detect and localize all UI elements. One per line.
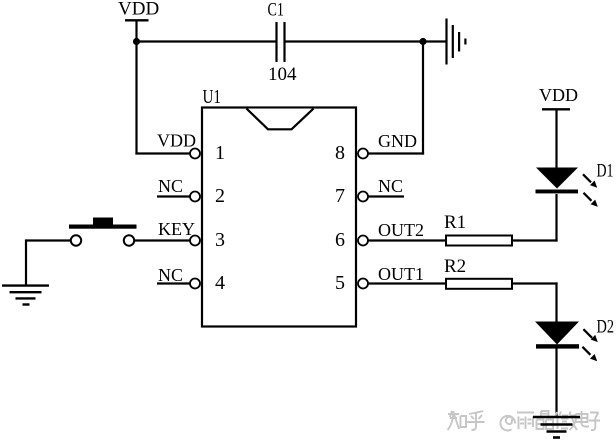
svg-text:D2: D2 (597, 317, 615, 338)
@ (500, 416, 515, 431)
IC notch (247, 109, 314, 130)
LED D2 (535, 322, 579, 349)
晶 (537, 411, 554, 429)
LED D1 (536, 168, 579, 194)
svg-text:OUT1: OUT1 (378, 264, 424, 284)
wire D2 cathode down to ground (555, 349, 557, 417)
电 (576, 411, 590, 427)
svg-text:8: 8 (335, 142, 345, 164)
子 (589, 413, 600, 431)
svg-text:C1: C1 (268, 0, 285, 21)
pin 8 circle (358, 149, 368, 159)
svg-text:7: 7 (335, 185, 345, 207)
svg-text:NC: NC (158, 265, 183, 285)
知 (448, 411, 467, 430)
pin 6 circle (358, 236, 368, 246)
wire button left to ground rail (26, 239, 71, 241)
wire D1 cathode down to R1 elbow (555, 194, 557, 242)
resistor R2 (444, 256, 512, 289)
node junction at VDD rail (133, 38, 140, 45)
svg-text:VDD: VDD (539, 85, 578, 105)
wire elbow down to D2 (555, 282, 557, 322)
pin 2 circle (190, 192, 200, 202)
wire VDD rail to pin 1 (135, 152, 190, 154)
wire GND node down to pin 8 (422, 42, 424, 155)
svg-text:R2: R2 (444, 256, 466, 277)
wire R1 to D1 elbow (513, 239, 558, 241)
svg-text:3: 3 (215, 229, 225, 251)
svg-text:U1: U1 (203, 86, 222, 108)
wire pin 5 to R2 (368, 282, 445, 284)
node junction at GND net (419, 38, 426, 45)
wire VDD rail down to pin 1 (135, 42, 137, 155)
power symbol VDD (top left) (118, 0, 159, 42)
op IC body U1 (202, 86, 356, 327)
watermark 知乎 @丽晶微电子 (drawn strokes, no CJK font) (448, 411, 601, 430)
capacitor C1 (268, 0, 298, 85)
svg-text:OUT2: OUT2 (378, 220, 424, 240)
svg-text:KEY: KEY (158, 219, 195, 239)
svg-text:D1: D1 (597, 161, 614, 182)
pin 7 stub wire (368, 195, 404, 197)
svg-text:1: 1 (215, 142, 225, 164)
svg-text:NC: NC (158, 176, 183, 196)
wire C1 right plate to ground node (286, 40, 424, 42)
resistor R1 (444, 212, 512, 246)
svg-text:6: 6 (335, 229, 345, 251)
svg-text:5: 5 (335, 272, 345, 294)
svg-text:R1: R1 (444, 212, 466, 233)
power symbol VDD (right) (539, 85, 578, 168)
svg-text:VDD: VDD (157, 131, 196, 151)
wire node to ground symbol (423, 40, 446, 42)
D1 arrow 1 (583, 174, 597, 187)
ground (bottom left) (2, 286, 49, 305)
pin 5 circle (358, 279, 368, 289)
svg-text:2: 2 (215, 185, 225, 207)
svg-text:NC: NC (378, 176, 403, 196)
wire pin 6 to R1 (368, 239, 445, 241)
微 (555, 412, 577, 431)
wire ground rail down (25, 239, 27, 285)
丽 (517, 413, 534, 430)
乎 (467, 411, 485, 430)
svg-text:VDD: VDD (118, 0, 159, 20)
pin 7 circle (358, 192, 368, 202)
pin 3 circle (190, 236, 200, 246)
ground (top right, rotated) (447, 19, 466, 65)
wire button right to pin 3 (134, 239, 190, 241)
D2 arrow 2 (582, 347, 597, 361)
D1 arrow 2 (584, 193, 598, 207)
svg-text:GND: GND (378, 131, 417, 151)
pin 4 circle (190, 279, 200, 289)
pin 4 stub wire (157, 282, 191, 284)
pin 1 circle (190, 149, 200, 159)
D2 arrow 1 (583, 329, 597, 342)
pushbutton S1 (69, 218, 137, 246)
wire R2 to D2 elbow (513, 282, 558, 284)
svg-text:104: 104 (268, 64, 297, 85)
svg-text:4: 4 (215, 272, 225, 294)
wire VDD node to C1 left plate (137, 40, 276, 42)
pin 2 stub wire (157, 195, 191, 197)
ground (bottom right, under D2) (533, 417, 580, 438)
